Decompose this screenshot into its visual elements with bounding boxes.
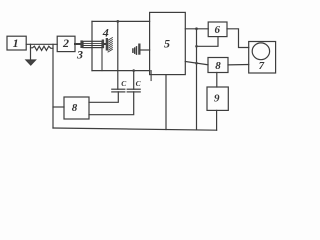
svg-text:3: 3 <box>76 48 83 62</box>
svg-text:8: 8 <box>72 102 78 114</box>
stub below chamber corner <box>150 71 152 81</box>
block 1 <box>7 36 26 50</box>
microphone body <box>138 44 140 55</box>
chamber left wall <box>91 21 93 70</box>
block 7 <box>249 42 276 74</box>
hatching of 4 <box>108 38 112 52</box>
block 9 <box>207 87 228 110</box>
ground lead <box>30 44 32 60</box>
wire 5 to 6 <box>185 28 208 30</box>
wire drop to bottom bus <box>52 44 54 128</box>
junction C2-chamber <box>132 69 135 72</box>
capacitor C2 plates <box>127 88 140 90</box>
svg-text:5: 5 <box>164 37 170 51</box>
chamber bottom <box>92 70 150 72</box>
block 2 <box>57 36 75 51</box>
wire 6 bottom to W1 <box>197 37 219 47</box>
junction W1 <box>195 27 198 30</box>
svg-text:6: 6 <box>215 24 221 36</box>
wire 1 to 2 <box>26 43 57 45</box>
svg-text:7: 7 <box>259 60 265 72</box>
rod 3 flange right <box>102 40 104 49</box>
svg-text:4: 4 <box>102 25 109 39</box>
svg-text:C: C <box>136 79 142 88</box>
capacitor C1 plates <box>112 88 125 90</box>
microphone wire <box>141 49 150 51</box>
svg-text:C: C <box>121 79 127 88</box>
rod 3 cylinder <box>83 41 102 47</box>
block 6 <box>208 22 227 37</box>
block 5 <box>150 12 186 74</box>
capacitor C1 bottom lead <box>89 92 118 102</box>
block 8 right <box>208 58 228 73</box>
plate 4 <box>106 38 108 51</box>
svg-text:1: 1 <box>13 36 19 50</box>
block 5 bottom lead <box>165 75 167 130</box>
svg-text:9: 9 <box>214 92 220 104</box>
microphone arcs <box>132 49 134 52</box>
rod 3 tip <box>104 43 106 45</box>
wire 5 to 8 <box>185 62 208 65</box>
svg-text:8: 8 <box>215 60 221 72</box>
block 9 bottom lead <box>216 110 218 130</box>
wire 8fb left <box>53 106 64 108</box>
svg-text:2: 2 <box>62 36 69 50</box>
ground <box>26 60 36 65</box>
junction W1-w58 <box>195 62 198 65</box>
capacitor C2 top lead <box>133 71 135 90</box>
partition wire <box>117 21 119 89</box>
indicator circle <box>252 43 269 60</box>
wire 8 to 9 <box>216 73 218 88</box>
wire 6 to 7 <box>227 29 249 48</box>
junction 6L-W1 <box>195 45 198 48</box>
chamber top <box>92 20 150 22</box>
support post <box>101 48 103 71</box>
rod 3 shaft <box>75 43 81 45</box>
wire 8 to 7 <box>228 64 249 66</box>
vertical wire W1 <box>196 29 198 130</box>
junction partition-top <box>116 20 119 23</box>
bottom bus <box>53 128 217 130</box>
rod 3 cylinder midline <box>83 42 102 44</box>
capacitor C2 bottom lead <box>89 92 134 115</box>
block 8 feedback <box>64 97 89 119</box>
rod 3 flange left <box>80 40 82 48</box>
spring <box>31 46 54 50</box>
